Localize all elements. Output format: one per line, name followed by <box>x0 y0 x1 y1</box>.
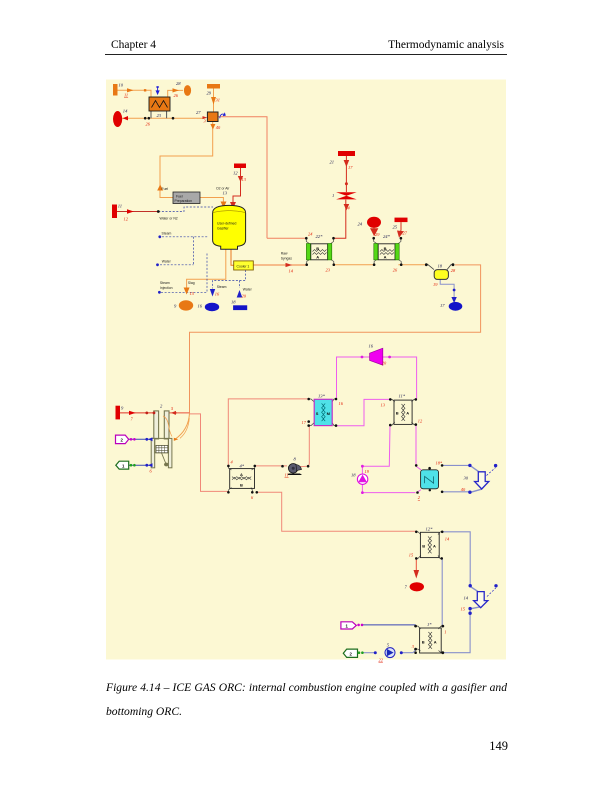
svg-text:21: 21 <box>330 160 335 165</box>
svg-text:Slag: Slag <box>188 281 195 285</box>
svg-text:22*: 22* <box>316 234 324 239</box>
svg-text:18: 18 <box>438 263 443 268</box>
svg-text:1*: 1* <box>427 622 432 627</box>
svg-text:13*: 13* <box>318 394 326 399</box>
svg-text:A: A <box>434 639 437 644</box>
svg-text:31: 31 <box>216 98 220 103</box>
svg-text:29: 29 <box>207 91 212 96</box>
svg-text:16: 16 <box>198 304 203 309</box>
svg-text:A: A <box>316 254 319 259</box>
svg-text:12: 12 <box>233 171 238 176</box>
svg-text:14: 14 <box>123 109 128 114</box>
svg-text:Steam: Steam <box>217 285 227 289</box>
svg-text:10: 10 <box>119 83 124 88</box>
svg-text:B: B <box>240 483 243 488</box>
svg-text:S: S <box>316 411 319 416</box>
svg-text:25: 25 <box>393 225 398 230</box>
svg-text:Water or N2: Water or N2 <box>160 217 178 221</box>
svg-text:16: 16 <box>369 344 374 349</box>
svg-text:A: A <box>433 543 436 548</box>
svg-text:24*: 24* <box>383 234 391 239</box>
svg-text:Fuel: Fuel <box>162 187 169 191</box>
svg-text:17: 17 <box>440 303 445 308</box>
svg-text:1: 1 <box>444 630 446 635</box>
svg-text:A: A <box>240 472 243 477</box>
svg-text:B: B <box>396 411 399 416</box>
svg-text:11: 11 <box>124 93 128 98</box>
svg-text:Cooler 1: Cooler 1 <box>237 265 250 269</box>
svg-text:24: 24 <box>358 222 363 227</box>
svg-text:Raw: Raw <box>281 252 288 256</box>
svg-text:A: A <box>406 411 409 416</box>
svg-text:User-defined: User-defined <box>217 222 237 226</box>
svg-text:Steam: Steam <box>162 232 172 236</box>
svg-text:Syngas: Syngas <box>281 257 293 261</box>
svg-text:11*: 11* <box>399 393 406 398</box>
svg-text:Water: Water <box>162 260 172 264</box>
svg-text:Injection: Injection <box>160 286 173 290</box>
svg-text:O2 or Air: O2 or Air <box>216 187 230 191</box>
svg-text:B: B <box>316 246 319 251</box>
svg-text:11: 11 <box>285 473 289 478</box>
svg-text:14: 14 <box>464 596 469 601</box>
svg-text:30: 30 <box>464 476 469 481</box>
svg-text:23: 23 <box>157 113 162 118</box>
svg-text:28: 28 <box>176 81 181 86</box>
svg-text:Preparation: Preparation <box>175 199 193 203</box>
svg-text:Steam: Steam <box>160 281 170 285</box>
svg-text:27: 27 <box>196 110 201 115</box>
svg-text:Gasifier: Gasifier <box>217 227 230 231</box>
svg-text:11: 11 <box>118 204 122 209</box>
svg-text:18*: 18* <box>436 461 443 466</box>
svg-text:18: 18 <box>351 473 356 478</box>
svg-text:18: 18 <box>231 300 236 305</box>
svg-text:4*: 4* <box>240 463 245 468</box>
svg-text:B: B <box>422 639 425 644</box>
svg-text:Water: Water <box>243 288 253 292</box>
svg-text:13: 13 <box>223 191 228 196</box>
svg-text:1: 1 <box>332 193 334 198</box>
svg-text:B: B <box>422 543 425 548</box>
svg-text:12*: 12* <box>426 527 434 532</box>
